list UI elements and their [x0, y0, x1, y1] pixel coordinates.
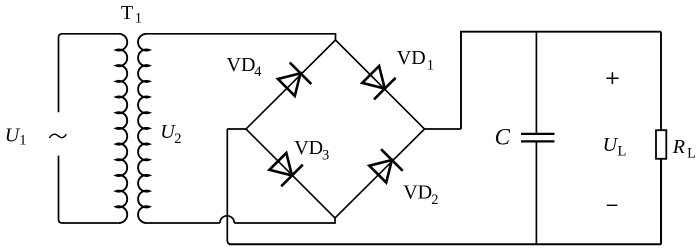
svg-text:L: L — [618, 144, 627, 160]
wire: hop to bridge bottom vertex with stub — [234, 218, 335, 223]
transformer T1 secondary winding — [138, 34, 149, 223]
diode VD2 triangle — [369, 160, 392, 183]
svg-text:1: 1 — [427, 58, 434, 74]
diode VD1 triangle — [362, 66, 385, 89]
diode VD3 cathode bar — [281, 165, 303, 187]
bridge diamond upper-right diagonal — [336, 40, 425, 129]
wire: negative rail vertical through hop — [227, 129, 231, 244]
wire: top positive rail — [460, 31, 661, 33]
AC source U1 tilde symbol — [49, 134, 66, 138]
transformer T1 primary winding — [116, 34, 127, 223]
wire: secondary bottom to hop — [146, 222, 219, 224]
wire hop over vertical (crossing, no connection) — [220, 216, 234, 223]
svg-text:R: R — [672, 136, 685, 158]
label minus sign — [607, 204, 618, 206]
diode VD4 cathode bar — [290, 63, 312, 85]
wire: positive riser — [460, 32, 462, 129]
svg-text:VD: VD — [227, 54, 256, 76]
wire: capacitor top lead — [535, 32, 537, 133]
svg-text:3: 3 — [322, 148, 329, 164]
wire: right side drop to resistor — [660, 32, 662, 131]
svg-text:4: 4 — [254, 64, 262, 80]
bridge diamond upper-left diagonal — [246, 40, 336, 129]
svg-text:L: L — [687, 146, 696, 162]
svg-text:1: 1 — [135, 10, 142, 26]
diode VD4 triangle — [278, 73, 301, 96]
wire: bridge right vertex jog — [425, 128, 462, 130]
wire: AC source loop upper-left vertical and top wire to primary — [59, 34, 119, 113]
svg-text:2: 2 — [431, 192, 438, 208]
diode VD2 cathode bar — [381, 149, 403, 171]
capacitor C top plate — [521, 133, 555, 135]
wire: secondary top to bridge top vertex — [146, 34, 335, 40]
bridge diamond lower-right diagonal — [335, 129, 425, 218]
diode VD1 cathode bar — [374, 78, 396, 100]
svg-text:C: C — [495, 125, 511, 150]
wire: capacitor bottom lead — [535, 142, 537, 244]
wire: AC source loop lower-left vertical and bottom wire to primary — [59, 156, 119, 223]
svg-text:VD: VD — [397, 47, 426, 69]
svg-text:VD: VD — [294, 137, 323, 159]
svg-text:U: U — [603, 134, 619, 156]
wire: resistor bottom to bottom rail — [660, 159, 662, 245]
svg-text:T: T — [121, 2, 133, 24]
bridge diamond lower-left diagonal — [246, 129, 335, 218]
diode VD3 triangle — [269, 153, 292, 176]
wire: bridge left vertex jog — [227, 128, 246, 130]
wire: bottom negative rail — [229, 243, 661, 245]
svg-text:2: 2 — [174, 131, 181, 147]
resistor RL body — [656, 130, 666, 159]
svg-text:VD: VD — [403, 182, 432, 204]
capacitor C bottom plate — [521, 140, 555, 142]
label plus sign — [606, 72, 618, 84]
svg-text:1: 1 — [19, 133, 26, 149]
